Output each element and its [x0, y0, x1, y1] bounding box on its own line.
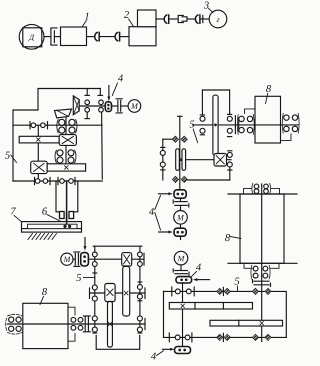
gears on H1 right of slide	[227, 116, 232, 133]
table 7	[22, 222, 82, 233]
coupling 4 (safety clutch) at motor M	[105, 102, 111, 112]
svg-text:г: г	[216, 15, 219, 24]
bearing frame over input shaft	[93, 245, 142, 247]
wire: shaft box1 to coupling	[87, 36, 95, 38]
bevel wheel on vertical shaft	[55, 109, 72, 118]
svg-text:4: 4	[149, 207, 155, 218]
frame bracket bottom	[96, 336, 140, 350]
gear block above box	[244, 183, 280, 194]
label 8 (top right box)	[266, 84, 272, 104]
svg-text:М: М	[176, 213, 185, 222]
label 4 (mid, both couplings)	[149, 196, 161, 231]
gears on shaft Y1	[92, 285, 142, 302]
label 3	[203, 0, 213, 12]
label 1	[82, 11, 90, 26]
motor Д (electric motor, top-left)	[19, 24, 44, 49]
bevel pair bottom	[172, 176, 187, 182]
clutch X3 on shaft Y1	[105, 284, 115, 302]
wire: input shaft from motor M	[79, 105, 105, 107]
gears right of clutch X4	[227, 152, 232, 167]
coupling plates on shaft Y2	[83, 316, 90, 332]
gears on input shaft	[92, 252, 142, 266]
bevel pair at main shaft (upper)	[252, 288, 271, 294]
svg-text:М: М	[177, 254, 186, 263]
vertical shafts down to pinions	[56, 181, 78, 226]
gear block below box	[244, 263, 279, 279]
coupling (flexible) second on shaft	[115, 32, 119, 40]
label 8 (bottom left box)	[40, 287, 48, 305]
gear block G1	[57, 119, 77, 133]
label 4 (upper)	[112, 73, 124, 95]
vertical shaft V1	[37, 125, 39, 181]
shaft through box 8	[7, 323, 82, 325]
bevel pair top	[163, 136, 188, 142]
vertical shaft V2 (bevel wheel column)	[65, 118, 67, 168]
svg-text:4: 4	[151, 351, 157, 362]
wire: motor to coupling	[180, 265, 182, 270]
gearbox 8 housing	[240, 194, 284, 263]
coupling (flexible) before generator	[195, 15, 199, 23]
coupling 4 (lower capsule)	[174, 228, 186, 239]
wire: shaft segment	[187, 18, 195, 20]
bevel pinion on input shaft	[73, 96, 79, 115]
wire: shaft coupling to motor	[112, 105, 118, 107]
gear block right of box 8	[281, 113, 300, 140]
vertical shaft (right) down to lower shaft	[101, 112, 104, 179]
upper internal shaft with gears (row 1)	[13, 122, 102, 129]
label 5 (mid right)	[189, 119, 197, 142]
elastic coupling plates (vertical chain)	[173, 198, 189, 210]
motor M (bottom right)	[174, 251, 188, 265]
label 4 (bottom right upper)	[192, 262, 202, 276]
vertical shaft left (x95)	[94, 246, 96, 333]
bearing caps at shaft bottoms	[93, 332, 142, 334]
label 8 (big box)	[225, 233, 241, 244]
bearing hangers on top frame	[85, 89, 103, 96]
label 5 (bottom right)	[234, 276, 239, 291]
motor M (mid right)	[174, 211, 188, 225]
bearing bar right of input shaft	[143, 253, 145, 265]
gear block right of box 8	[68, 307, 83, 341]
lower traverse shaft Y4	[164, 333, 287, 342]
gears on H1 at left bearing	[200, 116, 205, 133]
lower shaft with gears (row 5)	[13, 177, 102, 184]
bearing hanger right	[228, 90, 232, 137]
gearbox 1	[61, 27, 87, 46]
wire: shaft to generator with flange	[200, 15, 209, 22]
coupling 4 (bottom capsule)	[175, 347, 191, 354]
wire: output shaft of box 2	[156, 18, 164, 20]
sliding shaft R1	[108, 302, 113, 348]
generator Г (3)	[209, 10, 227, 28]
rack bar S3	[169, 303, 252, 310]
output shaft Y2	[82, 319, 145, 330]
vertical shaft right (x140)	[139, 246, 141, 333]
gear block G2	[55, 150, 76, 163]
label 2	[124, 10, 134, 27]
wire: to motor M	[121, 105, 128, 107]
arrow onto coupling	[193, 278, 210, 281]
gears on shaft Y2	[92, 316, 142, 332]
sliding block X2	[31, 161, 48, 173]
svg-text:7: 7	[10, 206, 16, 217]
bearing below input shaft	[85, 112, 89, 118]
svg-text:М: М	[130, 102, 139, 111]
coupling: belt/flange bracket after motor Д	[51, 28, 61, 45]
clutch X on input shaft	[122, 253, 132, 266]
arrow onto coupling 4	[107, 86, 110, 102]
svg-text:4: 4	[118, 73, 124, 84]
bearing ticks under input gears	[93, 273, 142, 301]
wire: under motor	[180, 224, 182, 228]
frame outline of gearbox 5	[13, 89, 100, 182]
vertical drive shaft	[182, 283, 184, 347]
upper traverse shaft Y3	[164, 287, 268, 296]
ground hatching under table	[28, 234, 57, 240]
gear block before box 8	[237, 109, 255, 134]
sliding shaft R2	[123, 266, 130, 316]
gearbox 2 (two stacked housings)	[129, 10, 156, 46]
frame lines top and bottom	[228, 194, 297, 263]
bevel pair on stub (upper)	[217, 287, 231, 295]
coupling (flexible) on shaft after box 1	[95, 32, 99, 40]
middle shaft Y1	[90, 288, 146, 298]
svg-text:3: 3	[203, 0, 209, 11]
frame over vertical slide	[202, 89, 229, 91]
svg-text:Д: Д	[28, 33, 35, 42]
label 7	[10, 206, 21, 221]
left frame bracket	[163, 291, 165, 337]
horizontal shaft H1	[193, 124, 299, 126]
wire: shaft to box 2	[120, 36, 129, 38]
elastic coupling plates	[73, 252, 80, 266]
screw-nut component	[176, 149, 186, 171]
rack engagement dots	[63, 213, 71, 228]
input shaft of feed box	[88, 258, 144, 260]
motor M (feed drive)	[61, 253, 73, 265]
vertical slide shaft R3	[213, 95, 218, 155]
bearing tick below gears + link down	[188, 167, 232, 180]
label 5 (feed box)	[76, 273, 94, 284]
coupling plates on H1	[235, 116, 238, 134]
vertical screw shaft V3	[178, 116, 182, 190]
rack bar S5	[210, 320, 283, 326]
svg-text:6: 6	[42, 206, 48, 217]
splined shaft S2	[47, 164, 85, 171]
left frame with gears	[160, 139, 165, 180]
motor M (gearbox 5 drive)	[128, 100, 141, 113]
bearing hanger left	[200, 90, 204, 135]
gearbox 8 (top right)	[255, 96, 281, 143]
svg-text:5: 5	[5, 150, 10, 161]
svg-text:5: 5	[76, 273, 81, 284]
coupling 4 (safety clutch, feed)	[81, 253, 89, 266]
label 5 (gearbox)	[5, 150, 17, 162]
svg-text:М: М	[63, 255, 72, 264]
wire: shaft segment	[100, 36, 115, 38]
svg-text:5: 5	[189, 119, 194, 130]
svg-text:1: 1	[84, 11, 89, 22]
svg-text:8: 8	[266, 84, 272, 95]
arrow onto lower capsule	[159, 231, 173, 234]
arrow onto bottom capsule	[163, 348, 175, 351]
coupling (flexible) after box 2	[164, 15, 168, 23]
label 6	[42, 206, 61, 221]
arrow down onto coupling 4	[84, 238, 87, 251]
svg-text:8: 8	[42, 287, 48, 298]
wire: motor shaft	[44, 36, 51, 38]
gear block left of box 8	[6, 314, 22, 334]
central vertical shaft	[261, 184, 263, 342]
gearbox 8 (bottom left)	[23, 303, 68, 348]
elastic coupling plates before motor M	[116, 99, 122, 113]
chain-link coupling	[178, 15, 187, 22]
bevel pair at main shaft (lower)	[252, 334, 271, 340]
bearing tick above gears	[228, 150, 232, 152]
gears on input shaft	[85, 100, 103, 112]
elastic coupling plates under motor	[173, 269, 189, 275]
shaft H2	[186, 159, 232, 161]
coupling 4 (capsule with arrow)	[176, 277, 192, 283]
splined shaft S1	[19, 136, 59, 143]
sliding block X1	[59, 135, 76, 146]
label 4 (bottom)	[151, 351, 164, 363]
elastic coupling plates (vertical shaft)	[253, 280, 271, 287]
svg-text:8: 8	[225, 233, 231, 244]
pinions 6	[60, 212, 74, 219]
coupling 4 (upper capsule)	[174, 190, 186, 198]
clutch X4	[214, 154, 227, 167]
bevel pair on stub (lower)	[217, 333, 231, 341]
arrow onto upper capsule	[159, 192, 173, 195]
wire: shaft to link	[169, 18, 178, 20]
right frame bracket	[271, 291, 286, 337]
